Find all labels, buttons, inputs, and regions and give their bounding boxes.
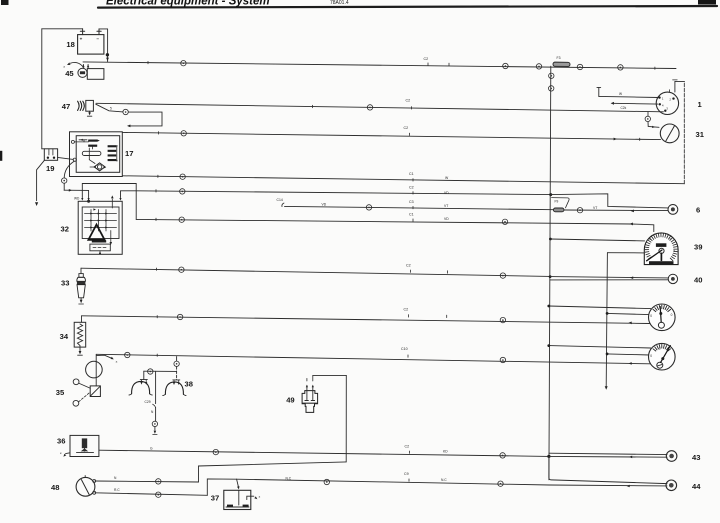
wire switch 1 branch to connector b <box>647 112 649 116</box>
svg-text:×: × <box>116 360 118 364</box>
wire connector b down to switch 31 <box>648 122 659 128</box>
17 resistor stack right <box>108 145 117 147</box>
svg-text:38: 38 <box>185 380 193 389</box>
wire WD horizontal to alternator <box>64 189 88 191</box>
wire lens top to connector 40 <box>550 277 668 278</box>
tick on row 3 b <box>639 138 641 140</box>
17 terminal circle lower-left <box>73 158 76 161</box>
svg-text:35: 35 <box>56 388 65 397</box>
page corner mark top-left <box>1 0 9 5</box>
wire 19 to 17 <box>58 157 74 159</box>
connector row VT <box>366 205 371 210</box>
alternator 32 down arrow inside <box>110 231 112 243</box>
17 regulator contact bar mid <box>88 145 97 147</box>
tick on row 1 c <box>654 67 656 69</box>
tick row VD2 <box>155 218 157 220</box>
wire branch into flasher 37 <box>237 479 239 487</box>
wire row C1 to switch bracket <box>122 176 684 184</box>
svg-text:C9: C9 <box>404 472 409 476</box>
svg-text:C29: C29 <box>145 400 151 404</box>
arrow second trunk end <box>605 386 608 390</box>
alternator 32 ground tick <box>99 251 101 254</box>
wire horn cross link <box>144 370 177 372</box>
svg-text:C2: C2 <box>404 126 409 130</box>
temp gauge 42 needle hub <box>657 362 663 368</box>
wire row 42 from 35 to temp gauge <box>96 354 649 364</box>
wire row 43 from 36 <box>99 450 549 456</box>
arrow left row VD2 <box>630 223 633 226</box>
svg-text:+: + <box>80 37 83 42</box>
svg-text:0: 0 <box>650 314 652 318</box>
svg-text:C2: C2 <box>406 263 411 267</box>
junction dot at alternator input <box>87 200 90 203</box>
svg-text:C1: C1 <box>409 212 414 216</box>
wire trunk branch to temp gauge top <box>549 346 651 348</box>
tick row 42 <box>156 354 158 356</box>
wire alternator WD terminal up and over <box>82 184 136 198</box>
harness hook at 35 <box>96 355 111 358</box>
svg-text:36: 36 <box>57 436 65 445</box>
wire jog from trunk to connector 6 lens top <box>551 194 668 208</box>
ground below 33 <box>80 300 83 303</box>
svg-text:VT: VT <box>593 206 597 210</box>
left horn 38 bell <box>132 381 150 393</box>
tick on row 1 <box>147 61 149 63</box>
wire VD drop to row VD2 <box>135 184 137 220</box>
main trunk vertical from fuse F3 <box>549 66 551 480</box>
connector 40 terminal <box>668 274 677 283</box>
ignition coil 45 body <box>87 69 104 80</box>
17 terminal circle upper-left <box>71 140 74 143</box>
svg-text:Electrical equipment - System: Electrical equipment - System <box>106 0 270 7</box>
horn coil 47 spring symbol <box>78 101 80 110</box>
wire row N from 48 <box>95 481 199 482</box>
svg-text:VD: VD <box>322 202 327 206</box>
tachometer 39 bottom bar <box>649 261 674 265</box>
svg-text:VD: VD <box>444 217 449 221</box>
connector horn link <box>148 369 153 374</box>
horn push 35 steering wheel circle <box>86 361 103 378</box>
tachometer 39 center marks <box>656 243 667 247</box>
svg-text:78A01.4: 78A01.4 <box>330 0 349 6</box>
tick on row 3 <box>158 132 160 134</box>
connector row 42 a <box>125 352 130 357</box>
connector row C1 <box>180 174 185 179</box>
arrow down on battery negative wire <box>106 58 109 61</box>
connector on row 1 c <box>536 64 541 69</box>
svg-text:45: 45 <box>65 69 74 78</box>
alternator 32 up arrow terminal <box>111 199 113 208</box>
pressure switch 49 body <box>302 391 318 413</box>
wire row VD1 to main trunk <box>136 191 551 195</box>
connector on row 1 e <box>618 65 623 70</box>
horn unit 47 body <box>86 100 94 111</box>
wire trunk branch to fuel gauge top <box>549 306 651 309</box>
ground below horns <box>154 427 156 430</box>
svg-text:37: 37 <box>211 493 219 502</box>
wire horn branch dashed <box>176 367 178 380</box>
wire horn ground drop C29 <box>155 371 157 403</box>
connector row VD2 b <box>502 219 507 224</box>
connector 43 terminal <box>666 451 677 462</box>
connector on row 3 <box>181 131 186 136</box>
wire 33 to row 40 <box>80 268 82 273</box>
tick row VD1 <box>155 190 157 192</box>
wire 49 to down drop <box>313 374 347 376</box>
wire 34 to row 41 <box>81 316 83 323</box>
connector on row 1 d <box>577 64 582 69</box>
fuel gauge 41 needle hub <box>658 322 664 328</box>
connector row 41 b <box>500 317 505 322</box>
connector row 40 a <box>179 267 184 272</box>
terminal arrows of 45 <box>82 64 84 67</box>
wire flag terminal to switch 1 <box>597 86 601 88</box>
wire second trunk from tachometer low side <box>607 252 645 254</box>
fuel gauge 41 dial <box>649 304 676 331</box>
page header rule <box>98 6 717 8</box>
wire lens bottom to connector 43 <box>549 455 667 458</box>
17 coil rounded box <box>82 151 101 155</box>
wire fuse F9 to connector 6 <box>564 209 668 212</box>
svg-text:C14: C14 <box>277 198 283 202</box>
connector trunk upper a <box>549 73 554 78</box>
tachometer 39 rim ticks <box>670 258 673 261</box>
svg-text:0: 0 <box>671 313 673 317</box>
arrow left row 41 <box>629 322 632 325</box>
flasher 37 contact feet <box>227 505 233 507</box>
wire battery feed horizontal <box>42 28 83 30</box>
wire trunk branch to tachometer mid <box>550 239 644 241</box>
svg-text:47: 47 <box>62 102 70 111</box>
connector below switch 1 <box>645 116 650 121</box>
connector trunk upper b <box>549 86 554 91</box>
arrow left on wire to connector 6 <box>631 210 634 213</box>
temp gauge 42 dial <box>649 343 676 370</box>
svg-text:C2: C2 <box>409 185 414 189</box>
wire second trunk branch to temp gauge <box>607 354 649 355</box>
17 regulator contact bar upper <box>88 140 97 142</box>
svg-text:G: G <box>150 446 153 450</box>
right horn 38 prong bar <box>173 379 180 381</box>
wire harness hook at 45 <box>71 62 83 66</box>
connector on row 1 a <box>181 61 186 66</box>
svg-text:F9: F9 <box>555 200 559 204</box>
alternator 32 field winding box <box>90 244 110 251</box>
junction dot trunk row 40 <box>549 275 552 278</box>
tick row 41 <box>156 316 158 318</box>
fusebox 19 <box>44 149 57 161</box>
tick on row 2 <box>312 105 314 107</box>
svg-text:43: 43 <box>692 453 700 462</box>
fuel gauge 41 needle <box>660 307 661 323</box>
svg-text:R.C: R.C <box>114 488 120 492</box>
17 wiring vertical <box>88 148 90 160</box>
page corner mark top-right <box>698 0 716 5</box>
wire connector down to WD node <box>63 183 65 190</box>
svg-text:C2k: C2k <box>621 106 627 110</box>
tick row 40 b <box>447 271 449 273</box>
wire trunk turn to connector 44 lens top <box>549 456 667 483</box>
svg-text:18: 18 <box>66 40 74 49</box>
svg-text:19: 19 <box>46 164 54 173</box>
alternator 32 terminal arrows <box>81 198 83 201</box>
harness hook at 36 <box>66 452 70 455</box>
svg-text:−: − <box>96 36 99 41</box>
arrow left lens 44 <box>627 485 630 488</box>
arrow left row 42 <box>629 362 632 365</box>
horn push 35 switch box <box>90 386 100 397</box>
connector 6 terminal <box>668 205 678 215</box>
junction blob on battery negative wire <box>106 53 109 56</box>
17 cutout diamond <box>94 163 105 171</box>
svg-text:49: 49 <box>286 395 294 404</box>
wire row 2 from 47 to ignition switch 1 <box>96 103 664 112</box>
fuel gauge 41 ticks <box>668 309 671 311</box>
svg-text:VD: VD <box>444 191 449 195</box>
svg-text:44: 44 <box>692 482 701 491</box>
sender 48 terminal b <box>93 491 96 494</box>
ground below 34 <box>79 351 82 354</box>
wire row VD2 to tachometer <box>136 219 654 231</box>
svg-text:40: 40 <box>694 276 702 285</box>
ignition switch 1 body <box>656 92 678 114</box>
wire row NC to connector 44 <box>237 479 550 485</box>
wire stub with left arrow to switch 1 <box>611 102 614 105</box>
wire bracket top to ignition switch <box>675 80 684 82</box>
control box 17 outer <box>70 132 123 177</box>
wire battery negative to wire row 1 <box>99 28 108 30</box>
connector horn ground <box>152 421 157 426</box>
svg-text:34: 34 <box>60 332 69 341</box>
wire second trunk branch to fuel gauge <box>607 313 649 314</box>
svg-text:W: W <box>619 92 622 96</box>
wire left horn drop <box>143 371 145 379</box>
connector horn branch <box>174 361 179 366</box>
junction dot trunk row 43 <box>547 455 550 458</box>
battery 18 positive post <box>80 30 84 32</box>
wire row 40 from 33 <box>81 268 550 276</box>
temperature sender 48 body <box>76 477 95 496</box>
svg-text:17: 17 <box>125 149 133 158</box>
wire 19 to starter cable with down arrow <box>37 160 45 200</box>
spark plug suppressor 33 <box>79 274 83 278</box>
wire lens bottom to connector 40 <box>550 279 668 281</box>
lighting switch 31 body <box>660 124 679 143</box>
tick row C1 <box>157 175 159 177</box>
left horn 38 prong bar <box>140 379 147 381</box>
connector on row 1 b <box>503 63 508 68</box>
tick on row 1 b <box>448 63 450 65</box>
svg-text:C1: C1 <box>409 172 414 176</box>
wire row RC from 48 <box>95 493 208 496</box>
wire branch row 42 to horns <box>176 357 178 361</box>
horn push 35 contact a <box>73 379 79 385</box>
battery 18 negative post <box>97 30 101 32</box>
ignition coil 45 primary circle <box>78 68 87 77</box>
wire lens bottom to connector 44 <box>549 484 667 487</box>
svg-text:C2: C2 <box>406 99 411 103</box>
horn push 35 contact b <box>73 400 79 406</box>
connector below 19 <box>61 178 66 183</box>
connector row NC a <box>324 479 329 484</box>
svg-text:C10: C10 <box>401 347 408 351</box>
tachometer 39 dial <box>644 233 678 265</box>
resistor 34 box <box>74 322 86 347</box>
svg-text:1: 1 <box>659 346 661 350</box>
alternator 32 brush bar <box>92 240 106 242</box>
sender 48 terminal a <box>93 480 96 483</box>
flasher 37 hook to harness <box>247 496 254 499</box>
svg-text:6: 6 <box>696 205 700 214</box>
svg-text:VT: VT <box>444 204 448 208</box>
svg-text:C2: C2 <box>424 57 429 61</box>
alternator 32 stator delta winding <box>88 225 104 240</box>
wire row VT to fuse F9 <box>285 206 554 209</box>
connector on row 2 <box>367 105 372 110</box>
wire 35 vertical <box>95 354 97 386</box>
svg-text:×: × <box>60 451 62 455</box>
resistor 34 zigzag <box>77 324 82 347</box>
arrow right on row 3 <box>614 138 617 141</box>
connector row NC b <box>498 481 503 486</box>
connector row 43 b <box>500 453 505 458</box>
fuel pump 36 box <box>70 435 99 456</box>
svg-text:C2: C2 <box>404 307 409 311</box>
svg-text:F3: F3 <box>557 56 561 60</box>
tick row 41 b <box>446 315 448 317</box>
svg-text:0: 0 <box>650 354 652 358</box>
page edge mark left <box>0 151 2 161</box>
connector row 43 a <box>213 449 218 454</box>
svg-text:33: 33 <box>61 278 69 287</box>
fuse F9 holder loop <box>552 198 570 208</box>
connector row RC <box>156 492 161 497</box>
ground below 47 <box>89 111 91 112</box>
connector after F9 <box>577 208 582 213</box>
wire 47 stub jog with left arrow <box>128 112 162 126</box>
wire bracket vertical right side <box>683 81 685 183</box>
right horn 38 bell <box>165 382 183 394</box>
wire row 3 to switch 31 <box>122 132 660 139</box>
arrow left lens 43 <box>629 456 632 459</box>
alternator 32 diode grid <box>85 213 117 215</box>
svg-text:N.C: N.C <box>441 478 447 482</box>
fuel pump 36 symbol <box>82 438 87 448</box>
connector on 47 stub <box>123 109 128 114</box>
svg-text:×: × <box>259 495 261 499</box>
wire 49 prongs <box>306 385 308 388</box>
tick row 40 <box>155 268 157 270</box>
tachometer 39 needle <box>647 250 662 261</box>
svg-text:32: 32 <box>61 225 69 234</box>
pressure switch 49 contacts <box>306 386 308 400</box>
svg-text:N.C: N.C <box>286 477 292 481</box>
temp gauge 42 needle <box>661 346 671 363</box>
connector 44 terminal <box>666 480 677 491</box>
alternator 32 inner box <box>82 207 119 239</box>
svg-text:48: 48 <box>51 483 59 492</box>
wire lens top to connector 43 <box>549 453 667 454</box>
wire jog up from row RC <box>207 479 236 495</box>
connector row VD1 <box>180 189 185 194</box>
switch 1 terminals <box>658 96 660 98</box>
control box 17 inner <box>76 136 120 173</box>
wire jog up from row N to 49 drop <box>199 462 347 482</box>
temp gauge 42 ticks <box>668 349 671 351</box>
flasher 37 centre wire <box>238 490 240 505</box>
junction dot trunk and row VD1 <box>549 193 552 196</box>
svg-text:31: 31 <box>696 130 705 139</box>
battery 18 <box>78 35 104 55</box>
wire left trunk vertical to fusebox 19 <box>41 29 43 149</box>
connector row VD2 a <box>179 217 184 222</box>
svg-text:39: 39 <box>694 243 702 252</box>
svg-text:C3: C3 <box>409 200 414 204</box>
connector row 42 b <box>500 357 505 362</box>
svg-text:KD: KD <box>443 450 448 454</box>
wire row 1 battery to fuse F3 <box>83 62 676 69</box>
svg-text:WD: WD <box>74 197 80 201</box>
svg-text:C2: C2 <box>405 444 410 448</box>
alternator 32 outer box <box>78 201 122 254</box>
wire row 41 from 34 to fuel gauge <box>82 316 650 324</box>
stub from 47 with connector <box>96 104 123 112</box>
connector row 41 a <box>177 314 182 319</box>
connector row N <box>156 479 161 484</box>
flasher unit 37 box <box>224 490 251 509</box>
wire alternator right terminal to row VD1 <box>121 191 137 198</box>
svg-text:5: 5 <box>110 107 112 111</box>
connector row 40 b <box>500 273 505 278</box>
wire 17 to alternator connector <box>64 161 74 178</box>
arrow left on lens 40 <box>630 276 633 279</box>
